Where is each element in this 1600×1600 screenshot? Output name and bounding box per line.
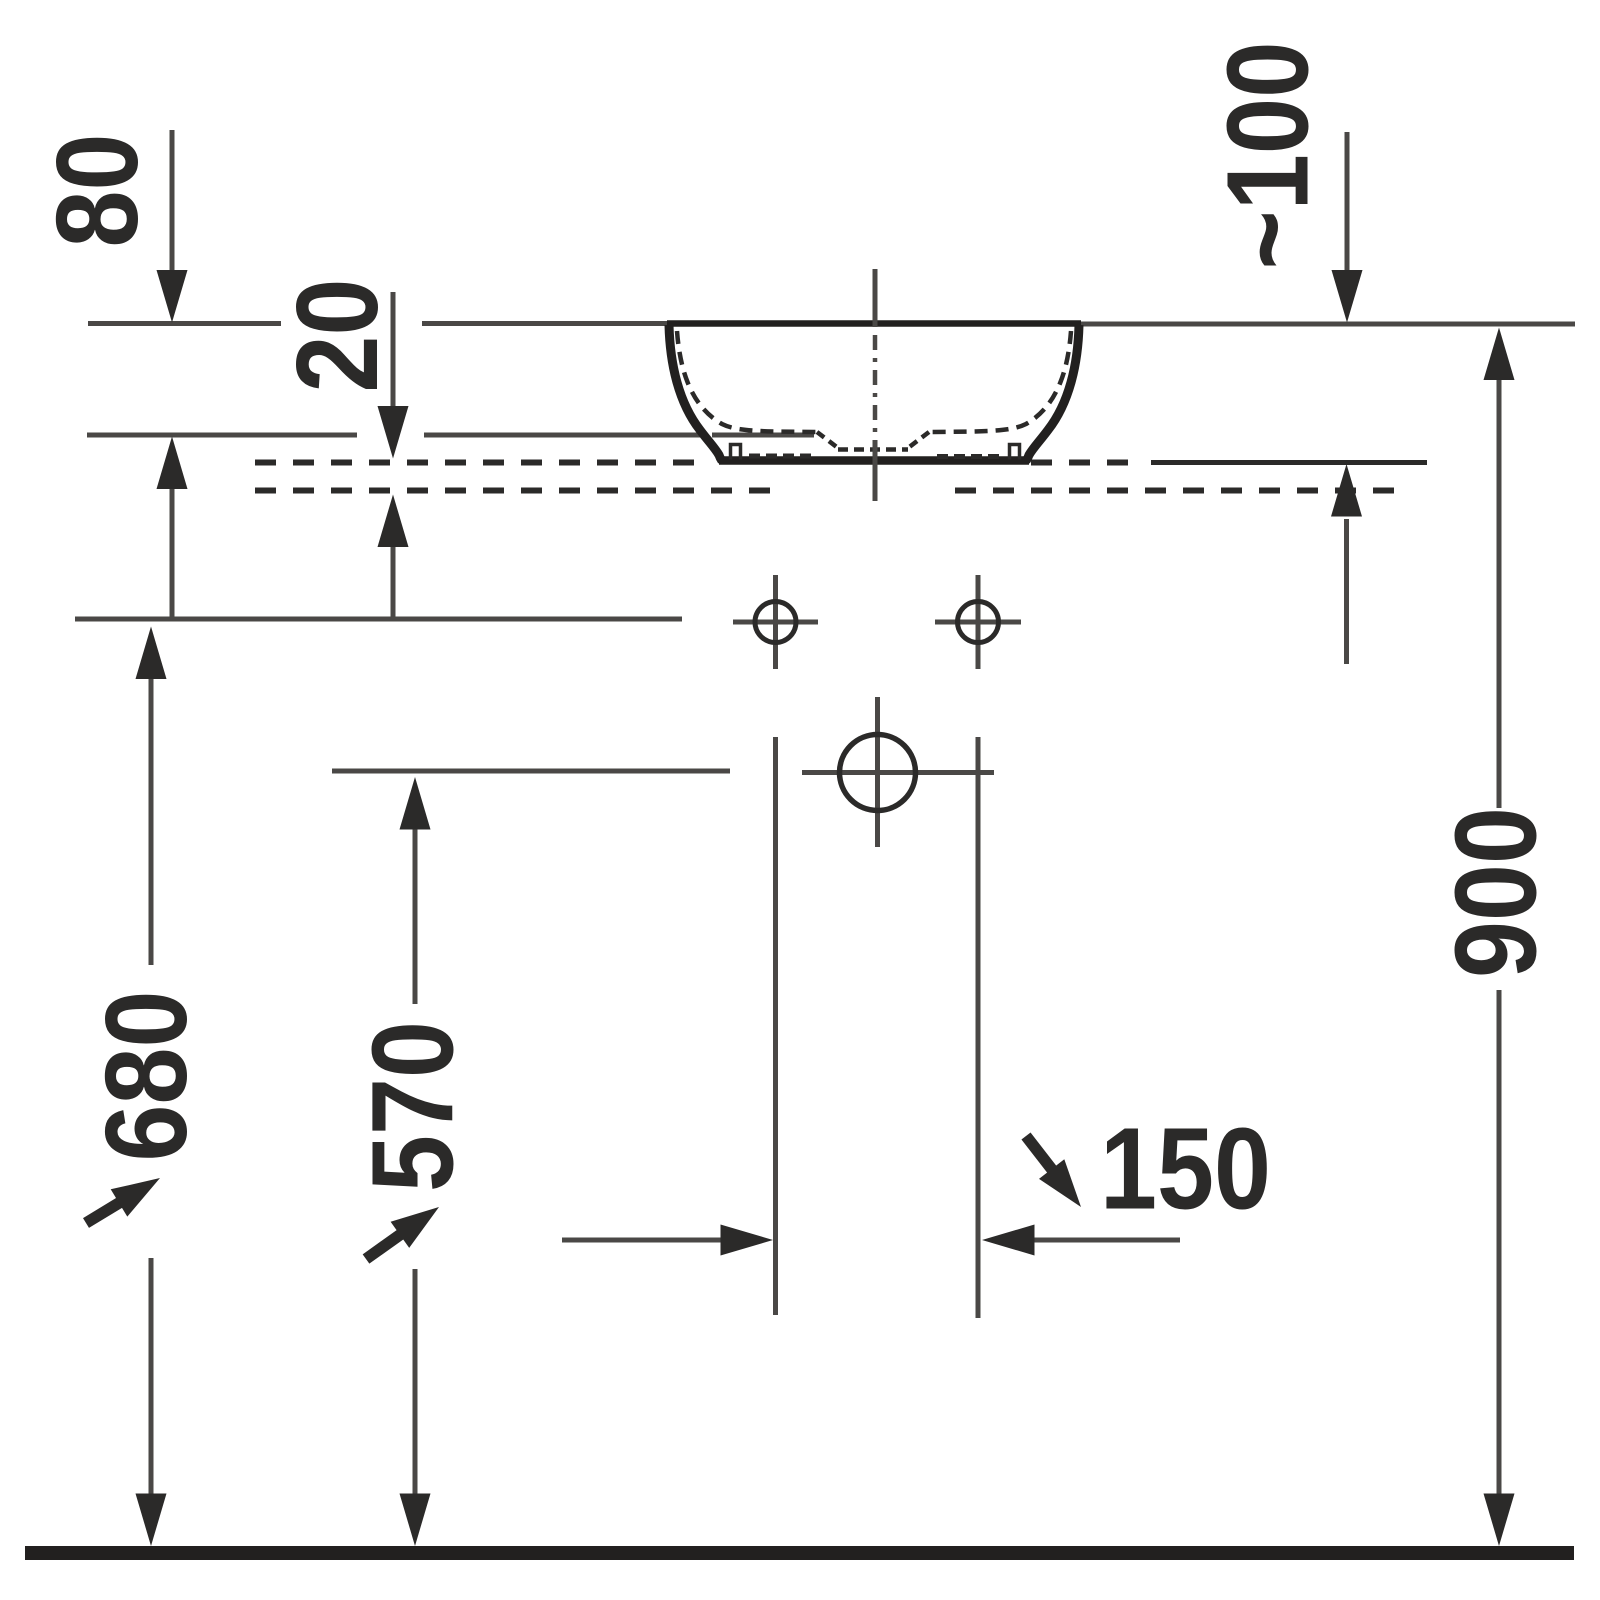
svg-text:~100: ~100 xyxy=(1203,42,1333,270)
svg-text:900: 900 xyxy=(1431,807,1561,978)
svg-text:570: 570 xyxy=(348,1021,478,1192)
svg-text:150: 150 xyxy=(1100,1104,1271,1234)
svg-text:20: 20 xyxy=(272,279,402,393)
svg-text:680: 680 xyxy=(81,991,211,1162)
svg-text:80: 80 xyxy=(32,134,162,248)
